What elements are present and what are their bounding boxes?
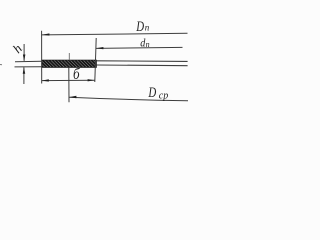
arrow b left	[42, 79, 49, 81]
extension line vertical at section middle (for Dcp)	[68, 67, 70, 102]
svg-text:п: п	[145, 23, 150, 33]
extension line vertical at section left edge	[41, 31, 43, 84]
svg-text:D: D	[135, 18, 144, 34]
arrow dn	[96, 47, 103, 49]
dimension line dn	[96, 47, 183, 48]
dimension line h lower (arrow up)	[23, 67, 25, 84]
arrow h down	[23, 55, 26, 62]
arrow b right	[88, 79, 95, 81]
svg-text:п: п	[146, 40, 150, 49]
arrow Dcp	[69, 96, 76, 98]
extension line vertical at section right edge	[95, 38, 96, 82]
extension line left bottom (section bottom edge, extends left)	[15, 66, 42, 68]
svg-text:D: D	[148, 85, 157, 101]
dimension line b	[42, 79, 95, 81]
dimension line h upper (arrow down)	[23, 44, 25, 61]
edge view line right top	[96, 60, 187, 63]
edge view line right bottom	[96, 64, 187, 67]
dimension line Dcp	[69, 97, 188, 101]
left edge scan mark	[0, 64, 2, 66]
arrow h up	[23, 67, 26, 74]
extension line left top (section top edge, extends left)	[15, 60, 42, 63]
dimension line Dn	[42, 33, 188, 35]
svg-text:б: б	[73, 66, 80, 83]
ring cross-section (hatched rectangle)	[42, 60, 97, 67]
faint middle extension above section	[68, 53, 70, 60]
svg-text:ср: ср	[159, 90, 168, 101]
arrow Dn	[42, 33, 49, 35]
